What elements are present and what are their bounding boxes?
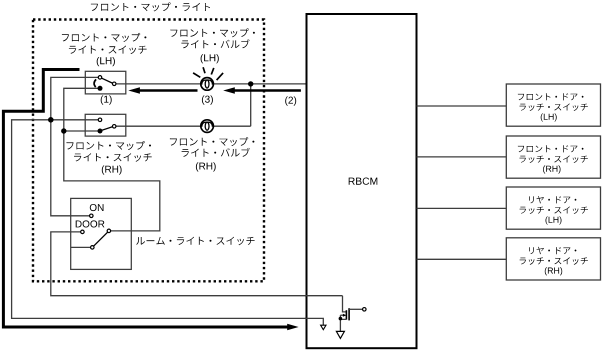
RBCM module box bbox=[307, 14, 417, 348]
label line2: front map light bulb (LH) bbox=[181, 39, 249, 48]
label line3: (RH) bulb bbox=[196, 162, 216, 171]
room switch ON contact (open) bbox=[90, 214, 94, 218]
label line1: front map light switch (LH) bbox=[62, 33, 146, 42]
front map light bulb (RH): lamp circle bbox=[201, 120, 214, 133]
bulb LH light rays (lit) bbox=[193, 67, 223, 80]
switch LH bottom contact (filled) bbox=[98, 86, 103, 91]
bulb RH filament bbox=[202, 122, 213, 127]
wire: RBCM to rear door latch switch (RH) bbox=[417, 258, 507, 260]
ground symbol under transistor bbox=[336, 331, 344, 338]
label line2: front map light bulb (RH) bbox=[182, 148, 250, 157]
front door latch switch (LH) box bbox=[506, 84, 600, 126]
label (1) at switch LH bbox=[101, 95, 112, 104]
wire: switch LH right contact -> bulb LH -> RBCM left edge bbox=[116, 83, 307, 85]
front door latch switch (LH) label line2 bbox=[520, 104, 588, 111]
label line3: (LH) bulb bbox=[201, 54, 219, 63]
front door latch switch (LH) label line1 bbox=[518, 93, 584, 100]
rear door latch switch (RH) label line3 bbox=[545, 267, 562, 275]
label RBCM bbox=[349, 178, 378, 185]
front map light bulb (LH): lamp circle bbox=[201, 78, 214, 91]
flow arrow from bulb (3) to switch (1), pointing left bbox=[140, 89, 198, 92]
wire: RBCM to front door latch switch (LH) bbox=[417, 105, 507, 107]
wire: RBCM to rear door latch switch (LH) bbox=[417, 207, 507, 209]
front map light switch (RH) box bbox=[85, 114, 126, 136]
rear door latch switch (LH) label line3 bbox=[546, 216, 562, 224]
transistor channel bar bbox=[345, 310, 347, 319]
wire: switch RH circuit entering RBCM to ground bbox=[305, 318, 323, 325]
wire: switch RH top contact -> far left -> bottom -> RBCM internal ground bbox=[12, 120, 324, 325]
label line2: front map light switch (LH) bbox=[69, 46, 147, 55]
room switch lever top contact (open) bbox=[107, 229, 111, 233]
rear door latch switch (LH) box bbox=[506, 187, 600, 229]
label DOOR inside room light switch bbox=[76, 220, 105, 227]
wire: RBCM to front door latch switch (RH) bbox=[417, 156, 507, 158]
room switch DOOR contact (open) bbox=[81, 230, 85, 234]
thick current-flow wire from switch LH around left/bottom to RBCM arrow bbox=[3, 70, 287, 328]
flow arrow labelled (2) from RBCM toward bulb, pointing left bbox=[235, 89, 301, 92]
wire: switch RH bottom contact stub to junction bbox=[64, 130, 100, 132]
label line2: front map light switch (RH) bbox=[74, 153, 152, 162]
label line1: front map light switch (RH) bbox=[67, 141, 152, 150]
rear door latch switch (LH) label line1 bbox=[529, 196, 576, 203]
label line1: front map light bulb (LH) bbox=[170, 28, 255, 37]
junction dot: ON-wire x RH-top wire bbox=[48, 117, 54, 123]
switch LH lever (closed to top contact) bbox=[102, 78, 113, 83]
label: room light switch bbox=[136, 237, 254, 246]
wire: room switch DOOR contact -> left -> down -> right -> RBCM transistor drain bbox=[51, 232, 343, 296]
front map light dotted enclosure box bbox=[33, 20, 264, 282]
switch LH moving-contact arc bbox=[94, 79, 96, 87]
transistor gate bar bbox=[348, 308, 350, 320]
transistor Q (output driver) drain lead bbox=[343, 296, 347, 312]
wire: switch RH right contact -> bulb RH -> up to junction on LH row bbox=[116, 84, 251, 126]
switch RH bottom contact (filled) bbox=[98, 129, 103, 134]
transistor gate lead and terminal circle bbox=[349, 308, 362, 310]
bulb LH filament bbox=[202, 80, 213, 85]
label ON inside room light switch bbox=[90, 204, 104, 211]
switch RH right contact (open) bbox=[112, 125, 116, 129]
label line3: (RH) switch bbox=[102, 165, 122, 174]
switch LH top contact (open) bbox=[98, 76, 102, 80]
front door latch switch (LH) label line3 bbox=[541, 113, 557, 121]
room switch lever bottom contact (open) bbox=[91, 246, 95, 250]
label line3: (LH) switch bbox=[97, 57, 115, 66]
front door latch switch (RH) label line3 bbox=[543, 165, 560, 173]
rear door latch switch (RH) label line2 bbox=[520, 257, 588, 264]
switch RH lever (on bottom contact) bbox=[102, 127, 113, 131]
ground symbol inside RBCM (small, under x=323) bbox=[321, 325, 326, 330]
front door latch switch (RH) label line2 bbox=[520, 156, 588, 163]
rear door latch switch (LH) label line2 bbox=[520, 207, 588, 214]
arrowhead at end of thick flow wire (points right into RBCM) bbox=[287, 324, 298, 331]
junction dot: LH-bottom wire x RH-bottom wire bbox=[61, 128, 66, 133]
rear door latch switch (RH) box bbox=[506, 238, 600, 280]
label (3) at bulb LH bbox=[202, 95, 213, 104]
wire: DOOR circuit entering RBCM to transistor drain bbox=[305, 295, 343, 297]
wire: switch LH top contact -> left -> down -> room light switch ON contact bbox=[51, 77, 100, 215]
wire: switch LH bottom contact -> left -> down -> right -> down -> room switch lever common bbox=[64, 88, 160, 231]
room switch lever common line bbox=[71, 246, 90, 248]
room light switch box bbox=[71, 198, 132, 269]
switch RH top contact (open) bbox=[98, 118, 102, 122]
front door latch switch (RH) box bbox=[506, 136, 600, 178]
switch LH right contact (open) bbox=[112, 82, 116, 86]
label (2) at RBCM feed bbox=[285, 96, 296, 105]
junction dot at transistor source/body bbox=[339, 317, 343, 321]
rear door latch switch (RH) label line1 bbox=[529, 247, 576, 254]
label: front map light (title) bbox=[91, 2, 210, 11]
front door latch switch (RH) label line1 bbox=[518, 145, 584, 152]
junction dot: LH row to RH bulb drop bbox=[248, 81, 253, 86]
room switch lever bbox=[94, 232, 108, 246]
label line1: front map light bulb (RH) bbox=[170, 137, 255, 146]
transistor body lead with arrow bbox=[340, 314, 343, 316]
front map light switch (LH) box bbox=[85, 71, 126, 94]
transistor source lead bbox=[340, 315, 346, 331]
